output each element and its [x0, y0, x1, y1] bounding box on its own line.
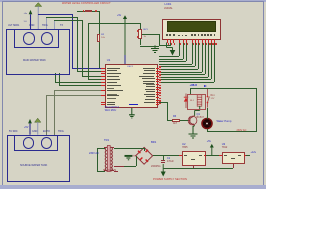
wire LCD RS to U1 [179, 43, 180, 57]
wire top sensor ECHO pin to U1 [54, 20, 55, 29]
+5V tap arrow between regulators [210, 144, 214, 155]
ground near VEE wire [151, 45, 159, 52]
wire rectified supply rail [153, 155, 182, 156]
power arrow bottom sensor pin2 (olive) [35, 118, 41, 135]
wire LCD D4 to U1 [205, 43, 206, 75]
C1 [161, 160, 165, 161]
relay flyback diode D1 [184, 94, 188, 109]
+5v / +12v labels [117, 15, 121, 18]
R3 resistor (horizontal, base) [172, 119, 180, 121]
wire bottom sensor TRIG to U1 [54, 90, 55, 134]
MCU U1 [105, 64, 158, 108]
motor (water pump) [202, 119, 212, 129]
U2 regulator [182, 151, 206, 165]
wire LCD D0 to U1 [192, 43, 193, 64]
wire bottom sensor ECHO to U1 [46, 95, 47, 134]
bottom sensor box [7, 135, 70, 182]
LCD [165, 4, 172, 7]
wire relay contact to motor [207, 108, 208, 120]
ground under Q1 emitter [189, 126, 198, 138]
wire LCD D6 to U1 [211, 43, 212, 80]
power arrow (top sensor pin1, small dark) [29, 10, 33, 29]
ground arrow at LCD pin1 [167, 43, 176, 56]
R2 resistor (vertical) [97, 34, 100, 42]
MCU pin name text marks (right column) [146, 84, 155, 85]
wire LCD E to U1 [186, 43, 187, 62]
wire relay RL1 supply feed [190, 88, 191, 94]
Q1 labels [197, 114, 200, 117]
preset RV1 [138, 29, 142, 39]
LCD pin stubs below body [167, 39, 168, 43]
wire motor to mains loop [207, 129, 208, 133]
power arrow bottom sensor pin1 [28, 119, 32, 135]
top sensor box [6, 29, 70, 75]
wire top sensor RX to U1 [59, 73, 60, 85]
power supply section text [153, 179, 187, 182]
MCU left pin stubs [101, 68, 106, 69]
transformer labels [104, 140, 109, 143]
wire mains loop bottom [207, 131, 256, 132]
wire top sensor GND to U1 (navy) [38, 14, 72, 15]
wire R1 to MCLR node [77, 11, 85, 12]
MCU right pin stubs [156, 68, 159, 69]
wire TR1 primary loop [97, 148, 105, 149]
LCD pin number marks [168, 43, 169, 45]
wire LCD RW to U1 [183, 43, 184, 59]
relay contact [207, 89, 210, 108]
relay box [187, 94, 206, 110]
R1 resistor (horizontal) [85, 10, 92, 13]
wire LCD D1 to U1 [195, 43, 196, 67]
transformer TR1 [104, 146, 114, 172]
wire top sensor TRIG pin to U1 [46, 17, 47, 29]
MCU pin name text marks (left column) [107, 68, 120, 69]
wire +5V rail [88, 23, 141, 24]
power arrow +5V (top sensor pin2, olive flat) [35, 3, 42, 29]
wire LCD D5 to U1 [208, 43, 209, 77]
ground under MCU [129, 106, 135, 118]
wire TR1 secondary to BR1 [114, 148, 145, 149]
bridge label [151, 142, 156, 145]
LCD pin label marks inside body [166, 34, 168, 36]
U3 regulator [222, 152, 246, 164]
+5V power arrow above MCU [123, 15, 127, 64]
ground near bridge left [125, 156, 137, 160]
wire C1 lead to rail [163, 155, 164, 160]
wire +5V rail drop to U1 [88, 23, 89, 79]
SVG layer for shaped symbols [0, 0, 266, 189]
ground arrow under C1 [161, 164, 166, 177]
wire LCD D2 to U1 [198, 43, 199, 70]
title text label [62, 3, 111, 6]
wire LCD VDD/VEE run [142, 34, 160, 35]
wire top sensor TX to U1 [55, 73, 56, 82]
wire LCD D7 to U1 [214, 43, 215, 83]
wire U1 RC2 to R3/Q1 base [159, 102, 168, 103]
wire LCD D3 to U1 [202, 43, 203, 72]
wire RV1 bottom to VEE run [140, 39, 141, 45]
bridge rectifier BR1 [136, 147, 153, 164]
wire mains loop right side [256, 88, 257, 132]
wire R2 leads (MCLR pull-up) [99, 23, 100, 34]
transistor Q1 [187, 106, 200, 127]
relay coil RL1 [197, 95, 202, 106]
wire ground bus under regulators [163, 168, 233, 169]
motor label [217, 121, 232, 124]
